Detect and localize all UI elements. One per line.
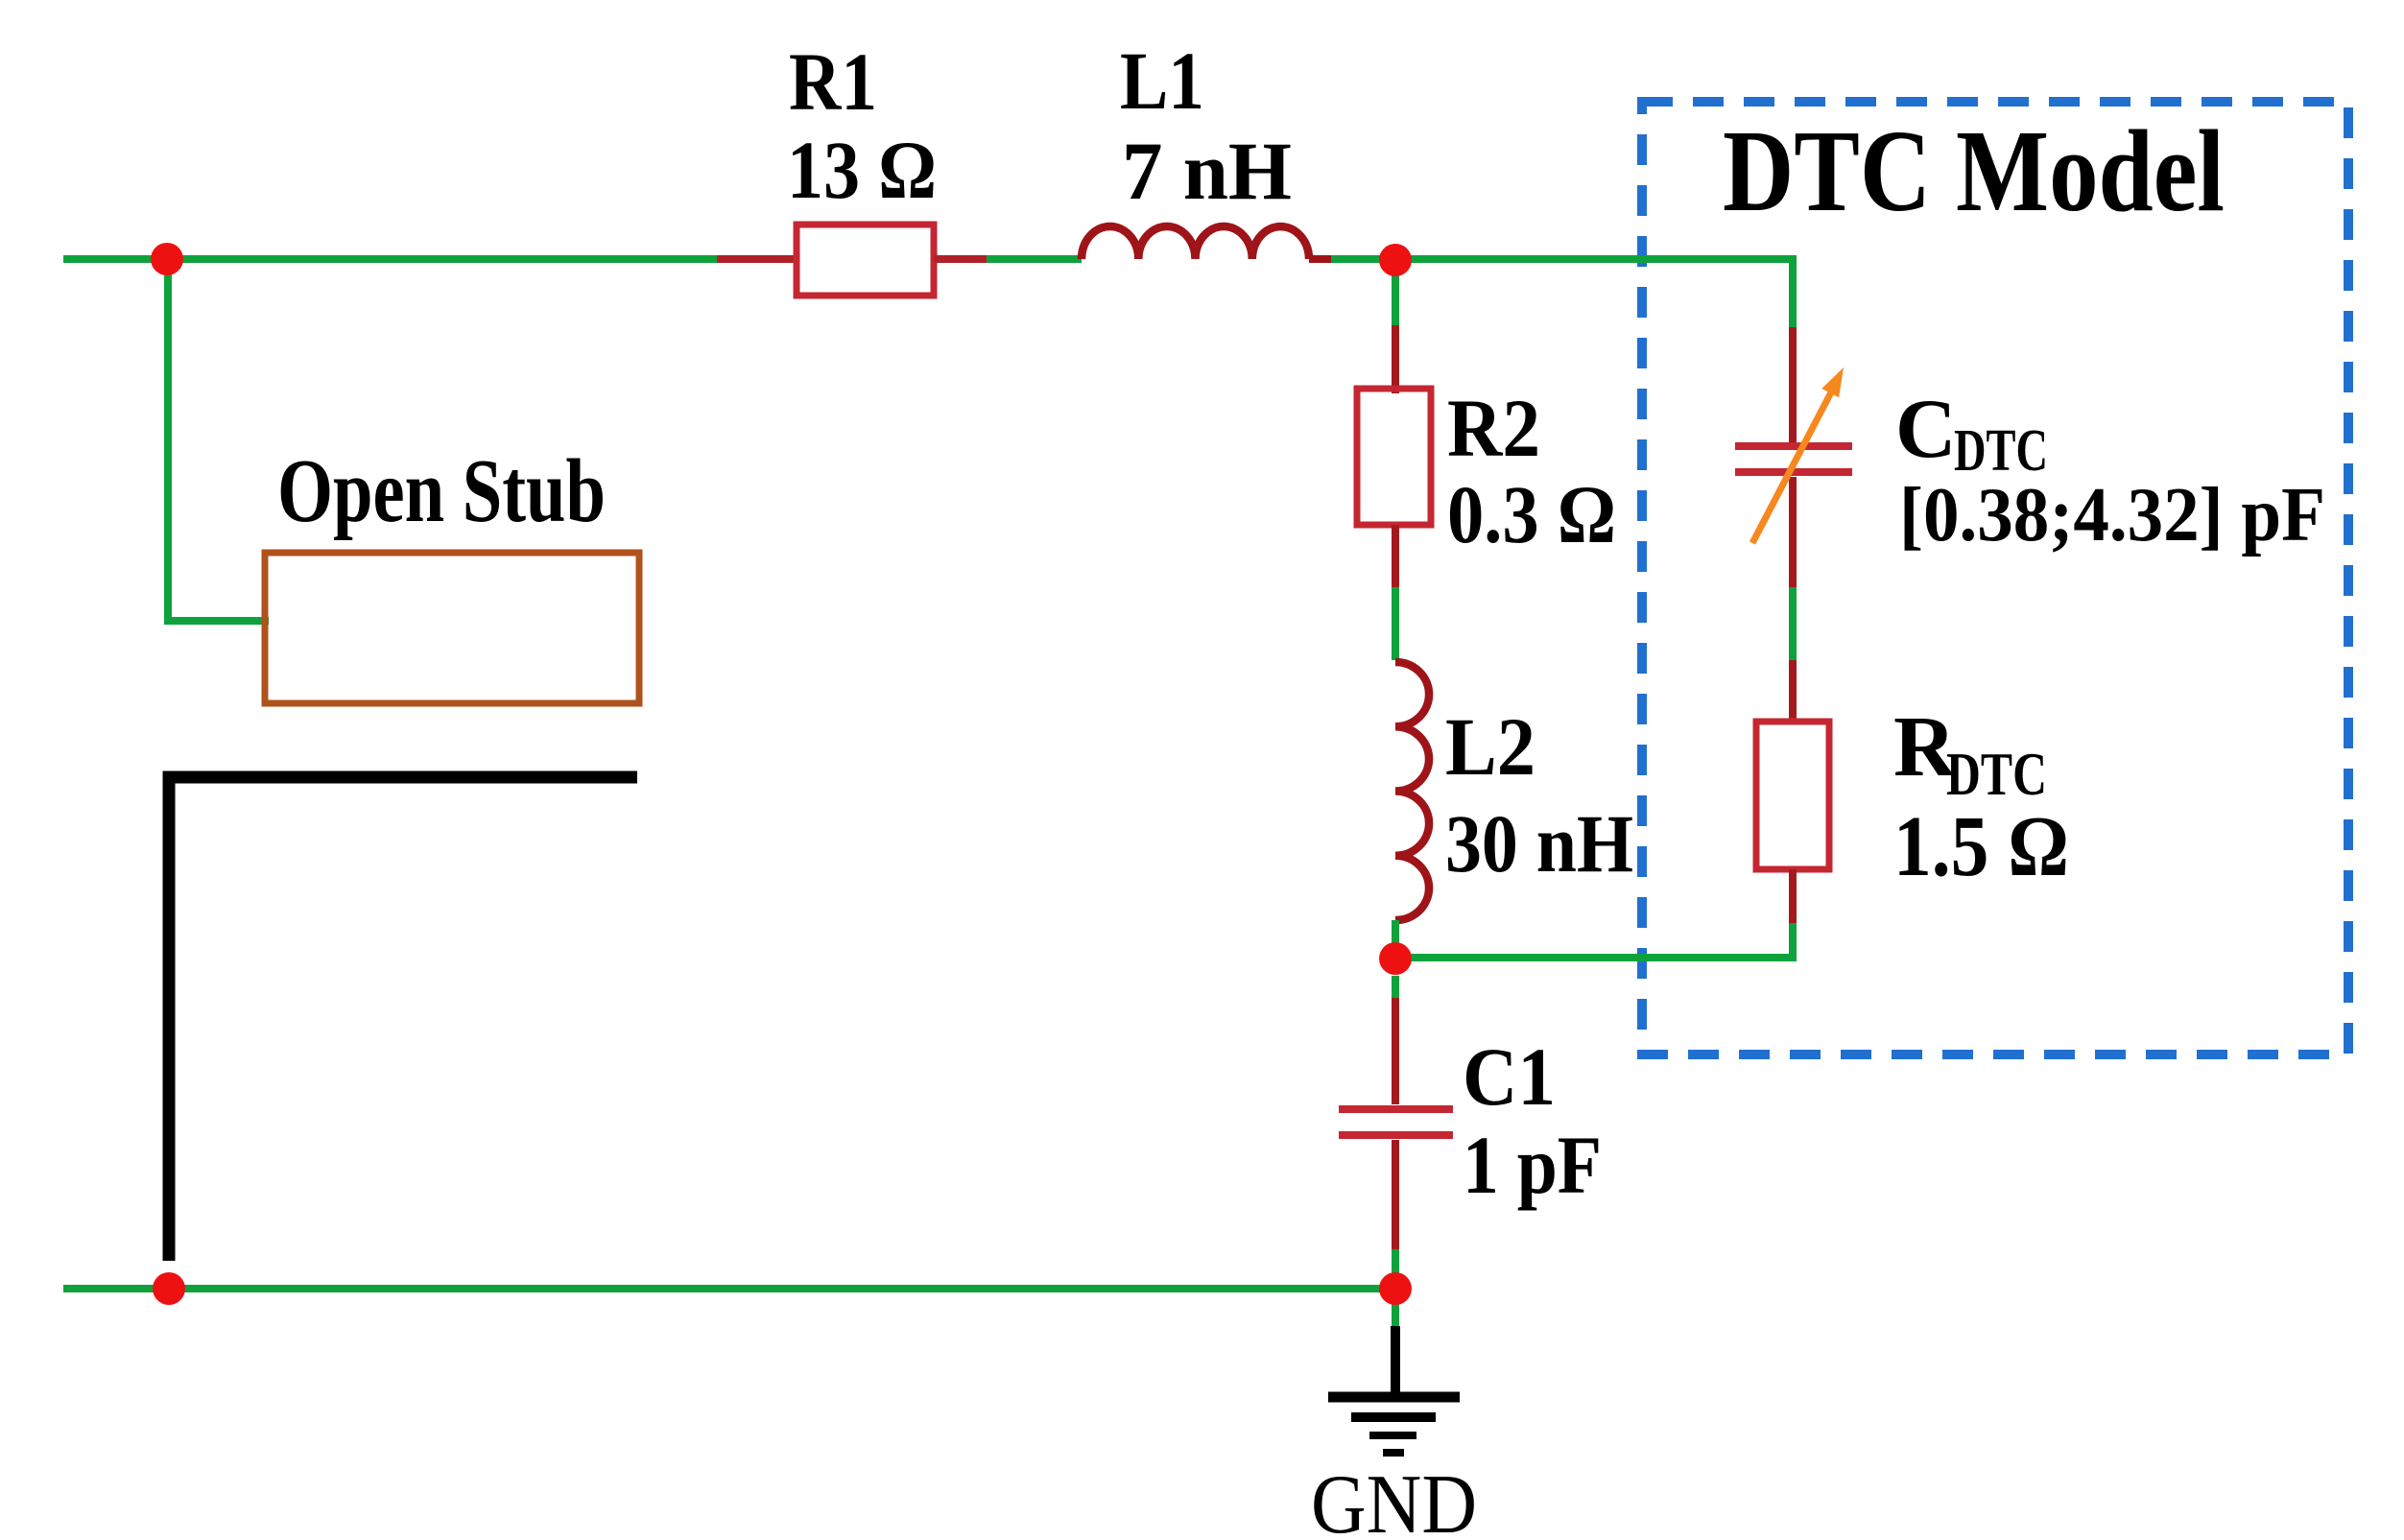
- svg-text:13 Ω: 13 Ω: [787, 124, 937, 216]
- svg-text:C1: C1: [1463, 1031, 1556, 1123]
- svg-text:GND: GND: [1311, 1458, 1477, 1540]
- svg-text:0.3 Ω: 0.3 Ω: [1447, 468, 1616, 560]
- svg-text:DTC: DTC: [1946, 740, 2047, 808]
- svg-text:R1: R1: [789, 36, 877, 128]
- svg-text:C: C: [1895, 383, 1957, 476]
- svg-text:L1: L1: [1120, 35, 1204, 127]
- svg-text:R2: R2: [1447, 382, 1540, 474]
- svg-text:Open Stub: Open Stub: [277, 441, 606, 541]
- svg-text:[0.38;4.32] pF: [0.38;4.32] pF: [1899, 473, 2325, 557]
- svg-text:1 pF: 1 pF: [1463, 1119, 1602, 1211]
- svg-text:7 nH: 7 nH: [1122, 125, 1292, 217]
- svg-text:30 nH: 30 nH: [1445, 797, 1633, 889]
- svg-text:L2: L2: [1445, 700, 1535, 793]
- svg-text:1.5 Ω: 1.5 Ω: [1893, 799, 2069, 894]
- svg-text:DTC Model: DTC Model: [1723, 107, 2225, 236]
